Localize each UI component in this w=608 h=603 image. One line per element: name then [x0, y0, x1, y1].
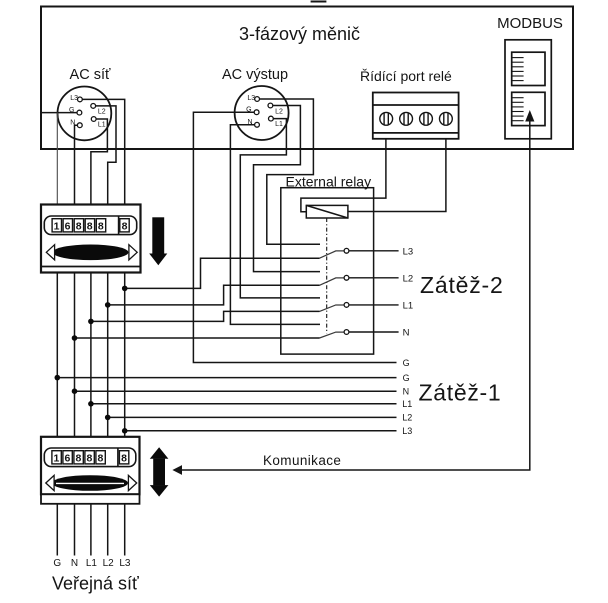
- M2 lens ellipse: [52, 475, 128, 491]
- M2 display divider: [117, 448, 119, 467]
- switch SW3 contact: [344, 303, 349, 308]
- M1 digit 8 decimal: [120, 219, 129, 233]
- relay coil K1: [306, 205, 348, 218]
- svg-text:8: 8: [76, 221, 82, 233]
- svg-text:G: G: [53, 558, 61, 569]
- M1 left triangle: [46, 245, 54, 260]
- wire SW4 to load N: [349, 331, 398, 333]
- wire SW1 to load L3: [349, 250, 398, 252]
- wire Zátěž-1 L1: [91, 403, 397, 405]
- J3 RJ45 socket lower: [512, 92, 545, 125]
- svg-text:Veřejná síť: Veřejná síť: [52, 574, 139, 594]
- wire grid L2 riser: [96, 106, 116, 556]
- J3 RJ45 socket upper: [512, 52, 545, 85]
- M1 energy flow arrow down: [149, 217, 167, 265]
- svg-text:MODBUS: MODBUS: [497, 15, 563, 32]
- relay K1 actuation dash-dot line: [326, 218, 328, 334]
- svg-text:1: 1: [53, 453, 59, 465]
- J2 pin L2: [268, 103, 273, 108]
- junction: grid N branch: [72, 335, 78, 341]
- svg-text:L1: L1: [403, 300, 414, 311]
- svg-text:L3: L3: [403, 246, 414, 257]
- svg-text:3-fázový měnič: 3-fázový měnič: [239, 24, 360, 44]
- J2 pin N: [255, 122, 260, 127]
- switch SW1 blade: [320, 251, 344, 258]
- svg-text:Komunikace: Komunikace: [263, 453, 341, 468]
- connector J2 AC výstup body: [235, 86, 289, 140]
- junction: grid L2 branch: [105, 302, 111, 308]
- svg-text:6: 6: [64, 453, 70, 465]
- svg-text:L1: L1: [402, 399, 412, 409]
- svg-text:L2: L2: [98, 109, 106, 116]
- top edge artifact dash: [311, 1, 327, 3]
- TB1 screw terminal 4: [440, 112, 453, 125]
- M2 digit 8: [74, 451, 83, 465]
- wire Zátěž-1 N: [75, 390, 397, 392]
- inverter enclosure box: [41, 7, 573, 150]
- junction: grid G to Zátěž-1: [55, 375, 61, 381]
- svg-text:8: 8: [87, 221, 93, 233]
- junction: grid N to Zátěž-1: [72, 388, 78, 394]
- TB1 screw terminal 2: [400, 112, 413, 125]
- svg-text:Zátěž-1: Zátěž-1: [419, 380, 502, 406]
- terminal block TB1 relay control port: [373, 93, 459, 139]
- M1 display divider: [118, 216, 120, 235]
- wire branch grid L1 to SW3 blade: [91, 311, 320, 321]
- wire Zátěž-1 L3: [125, 430, 397, 432]
- M2 digit 8: [96, 451, 105, 465]
- M1 digit 6: [63, 219, 72, 233]
- svg-text:8: 8: [97, 453, 103, 465]
- wire inverter L3: J2 L3 pin to switch SW1 upper contact: [260, 99, 321, 244]
- wire grid L3 riser: [82, 99, 124, 555]
- svg-text:L3: L3: [119, 558, 131, 569]
- M1 lens ellipse: [53, 245, 129, 261]
- junction: grid L3 branch: [122, 286, 128, 292]
- svg-text:G: G: [403, 373, 410, 383]
- junction: grid L1 to Zátěž-1: [88, 401, 94, 407]
- wire komunikace: MODBUS to meter 2: [181, 120, 530, 470]
- wire Zátěž-1 G (second): [57, 377, 396, 379]
- wire TB1 terminal1 to relay coil K1: [301, 139, 386, 212]
- svg-text:8: 8: [86, 453, 92, 465]
- M1 digit 8: [85, 219, 94, 233]
- junction: grid L1 branch: [88, 319, 94, 325]
- svg-text:L1: L1: [275, 121, 283, 128]
- M2 digit 8: [85, 451, 94, 465]
- TB1 screw terminal 1: [380, 112, 393, 125]
- svg-text:L1: L1: [98, 121, 106, 128]
- svg-text:L2: L2: [403, 273, 414, 284]
- svg-text:L2: L2: [103, 558, 115, 569]
- wire branch grid L2 to SW2 blade: [108, 285, 320, 305]
- komunikace arrowhead left at meter 2: [172, 465, 182, 475]
- energy meter M2 body: [41, 437, 140, 504]
- wire SW2 to load L2: [349, 277, 398, 279]
- svg-text:1: 1: [54, 221, 60, 233]
- J2 pin L1: [269, 116, 274, 121]
- wire grid G: J1 G pin to enclosure edge: [41, 112, 77, 114]
- external relay box: [281, 188, 374, 354]
- switch SW4 contact: [344, 330, 349, 335]
- wire SW3 to load L1: [349, 304, 398, 306]
- TB1 screw terminal 3: [420, 112, 433, 125]
- J1 pin G: [77, 110, 82, 115]
- J2 pin G: [254, 110, 259, 115]
- wire Zátěž-1 L2: [108, 416, 397, 418]
- switch SW3 blade: [320, 305, 344, 311]
- M1 display frame: [44, 216, 136, 235]
- svg-text:L2: L2: [402, 413, 412, 423]
- svg-text:N: N: [71, 558, 78, 569]
- energy meter M1 body: [41, 205, 141, 273]
- switch SW1 contact: [344, 248, 349, 253]
- M2 lens highlight line: [56, 482, 124, 484]
- M2 left triangle: [46, 475, 54, 490]
- M1 digit 1: [52, 219, 61, 233]
- wire inverter N: J2 N pin to switch SW4 upper contact: [230, 125, 320, 325]
- switch SW2 contact: [344, 275, 349, 280]
- svg-text:Řídící port relé: Řídící port relé: [360, 68, 452, 84]
- M2 digit 8 decimal: [119, 451, 128, 465]
- wire inverter G: J2 G pin to Zátěž-1 G: [193, 112, 396, 362]
- svg-text:8: 8: [121, 453, 127, 465]
- M1 right triangle: [129, 245, 137, 260]
- J1 pin L3: [78, 97, 83, 102]
- junction: grid L3 to Zátěž-1: [122, 428, 128, 434]
- M2 digit 6: [63, 451, 72, 465]
- connector J3 MODBUS housing: [505, 40, 551, 139]
- M2 right triangle: [128, 475, 136, 490]
- svg-text:AC výstup: AC výstup: [222, 67, 288, 83]
- M2 display frame: [44, 448, 136, 467]
- svg-text:N: N: [403, 387, 410, 397]
- M1 digit 8: [74, 219, 83, 233]
- J1 pin L1: [91, 117, 96, 122]
- connector J1 AC síť body: [58, 87, 112, 141]
- svg-text:L2: L2: [275, 108, 283, 115]
- wire grid N riser: [75, 125, 78, 555]
- J1 pin N: [77, 123, 82, 128]
- M2 digit 1: [52, 451, 61, 465]
- svg-text:L3: L3: [247, 95, 255, 102]
- svg-text:8: 8: [98, 221, 104, 233]
- svg-text:G: G: [403, 358, 410, 368]
- svg-text:8: 8: [75, 453, 81, 465]
- wire grid G riser through meters: [56, 113, 58, 205]
- svg-text:L3: L3: [402, 426, 412, 436]
- svg-text:AC síť: AC síť: [70, 67, 111, 83]
- svg-text:8: 8: [122, 221, 128, 233]
- svg-text:6: 6: [65, 221, 71, 233]
- wire branch grid N to SW4 blade: [75, 337, 320, 339]
- switch SW4 blade: [320, 332, 344, 338]
- svg-text:Zátěž-2: Zátěž-2: [420, 272, 504, 298]
- wire TB1 terminal4 to relay coil K1: [348, 139, 446, 212]
- wire grid L1 riser: [91, 119, 108, 556]
- junction: grid L2 to Zátěž-1: [105, 415, 111, 421]
- J1 pin L2: [91, 104, 96, 109]
- wire inverter L1: J2 L1 pin to switch SW3 upper contact: [240, 119, 320, 298]
- M2 energy flow double arrow: [150, 447, 169, 496]
- wire inverter L2: J2 L2 pin to switch SW2 upper contact: [254, 106, 321, 272]
- J2 pin L3: [255, 97, 260, 102]
- wire branch grid L3 to SW1 blade: [125, 258, 320, 288]
- komunikace arrowhead up into MODBUS: [525, 110, 534, 122]
- switch SW2 blade: [320, 278, 344, 285]
- svg-text:L1: L1: [86, 558, 98, 569]
- svg-text:L3: L3: [70, 95, 78, 102]
- svg-text:N: N: [403, 328, 410, 339]
- M1 digit 8: [96, 219, 105, 233]
